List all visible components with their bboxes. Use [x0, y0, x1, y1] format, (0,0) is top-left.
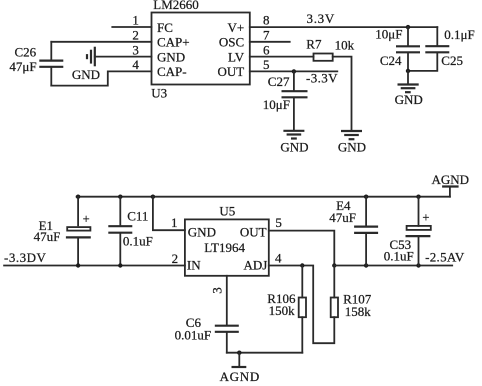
resistor R107: [331, 266, 372, 320]
wire U5 pin 1: [153, 197, 185, 231]
svg-text:V+: V+: [227, 20, 244, 35]
svg-text:-3.3V: -3.3V: [306, 70, 338, 85]
svg-text:0.1uF: 0.1uF: [384, 248, 414, 263]
svg-text:+: +: [422, 210, 429, 224]
node E1 top: [76, 195, 80, 199]
wire -2.5AV rail: [334, 249, 465, 265]
svg-text:GND: GND: [188, 225, 216, 240]
node 3.3V at C24: [406, 25, 410, 29]
svg-text:IN: IN: [187, 257, 201, 272]
svg-text:U3: U3: [151, 86, 167, 101]
svg-text:3: 3: [209, 287, 224, 294]
node U5 pin1 branch: [151, 195, 155, 199]
svg-text:GND: GND: [280, 140, 308, 155]
ground below R7: [338, 131, 366, 155]
pin 6 wire to R7: [250, 42, 314, 57]
AGND (bottom): [220, 353, 260, 384]
resistor R7: [306, 36, 354, 60]
svg-text:3.3V: 3.3V: [307, 11, 335, 26]
svg-text:ADJ: ADJ: [243, 257, 267, 272]
svg-text:R7: R7: [306, 36, 322, 51]
svg-text:C25: C25: [441, 53, 463, 68]
svg-text:AGND: AGND: [220, 369, 260, 384]
capacitor E1 (electrolytic): [34, 197, 91, 266]
capacitor C53 (electrolytic): [384, 197, 431, 266]
node C24/C25 junction: [406, 69, 410, 73]
node C53 top: [416, 195, 420, 199]
svg-text:5: 5: [275, 215, 282, 230]
svg-text:4: 4: [132, 57, 139, 72]
svg-text:C26: C26: [15, 44, 37, 59]
node C11 top: [118, 195, 122, 199]
pin 5 wire -3.3V net: [250, 57, 338, 85]
svg-text:10μF: 10μF: [263, 97, 290, 112]
svg-text:LM2660: LM2660: [153, 0, 199, 12]
svg-text:C24: C24: [380, 53, 402, 68]
svg-text:2: 2: [172, 251, 179, 266]
node E4 top: [364, 195, 368, 199]
svg-text:-2.5AV: -2.5AV: [425, 249, 465, 264]
svg-text:GND: GND: [72, 67, 100, 82]
wire ADJ pin 4 to R107 bottom: [269, 266, 335, 344]
svg-text:150k: 150k: [269, 303, 296, 318]
wire R7 to ground: [333, 57, 352, 130]
svg-text:+: +: [83, 212, 90, 226]
capacitor C6: [175, 315, 239, 353]
wire U5 pin 3: [209, 276, 227, 325]
svg-text:0.1μF: 0.1μF: [444, 27, 474, 42]
svg-text:OSC: OSC: [219, 35, 244, 50]
svg-text:1: 1: [171, 215, 178, 230]
svg-text:6: 6: [263, 42, 270, 57]
pin 1 stub FC: [112, 13, 151, 28]
svg-text:3: 3: [132, 42, 139, 57]
ground below C24: [395, 85, 423, 108]
capacitor C25: [408, 27, 475, 71]
svg-text:OUT: OUT: [240, 225, 267, 240]
svg-text:U5: U5: [219, 204, 235, 219]
node OUT/R107 junction: [332, 263, 336, 267]
capacitor C11: [108, 197, 153, 266]
capacitor C24: [375, 26, 420, 71]
op-amp U5 LT1964 box: [185, 204, 269, 276]
svg-text:10k: 10k: [335, 37, 355, 52]
svg-text:7: 7: [263, 28, 270, 43]
node R106 top: [300, 263, 304, 267]
svg-text:LV: LV: [228, 49, 245, 64]
node AGND branch: [237, 351, 241, 355]
svg-text:47μF: 47μF: [9, 59, 36, 74]
wire OUT pin 5: [269, 231, 335, 266]
svg-text:C11: C11: [127, 208, 148, 223]
svg-text:GND: GND: [395, 92, 423, 107]
node E4 bottom: [364, 263, 368, 267]
pin 7 stub OSC: [250, 28, 290, 43]
svg-text:0.01uF: 0.01uF: [175, 328, 211, 343]
op-amp U3 LM2660 box: [151, 0, 250, 101]
svg-text:0.1uF: 0.1uF: [123, 233, 153, 248]
svg-text:C27: C27: [268, 74, 290, 89]
svg-text:OUT: OUT: [217, 64, 244, 79]
ground below C27: [280, 131, 308, 155]
node C11 bottom: [118, 263, 122, 267]
svg-text:10μF: 10μF: [375, 26, 402, 41]
svg-text:47uF: 47uF: [329, 210, 356, 225]
svg-text:FC: FC: [157, 20, 173, 35]
capacitor E4: [329, 197, 378, 266]
svg-text:47uF: 47uF: [34, 229, 61, 244]
svg-text:GND: GND: [157, 49, 185, 64]
pin 3 wire to ground: [95, 42, 152, 57]
svg-text:5: 5: [263, 57, 270, 72]
wire to ground below C24: [407, 71, 409, 84]
capacitor C27: [263, 71, 308, 129]
svg-text:8: 8: [263, 13, 270, 28]
svg-text:CAP+: CAP+: [157, 35, 190, 50]
node E1 bottom: [76, 263, 80, 267]
svg-text:158k: 158k: [345, 304, 372, 319]
svg-text:4: 4: [275, 251, 282, 266]
wire -3.3DV rail: [4, 250, 185, 266]
pin 4 wire to C26 bottom: [51, 57, 151, 86]
pin 2 wire to C26: [51, 28, 151, 43]
svg-text:1: 1: [132, 13, 139, 28]
ground (sideways) at pin 3: [72, 47, 100, 82]
svg-text:GND: GND: [338, 140, 366, 155]
node C53 bottom: [416, 263, 420, 267]
capacitor C26: [9, 42, 63, 86]
node at C27: [292, 69, 296, 73]
svg-text:2: 2: [132, 28, 139, 43]
wire 3.3V net from pin 8: [250, 11, 437, 28]
wire top rail of lower circuit: [77, 196, 450, 198]
AGND (top right): [432, 172, 470, 197]
svg-text:CAP-: CAP-: [157, 64, 187, 79]
svg-text:-3.3DV: -3.3DV: [4, 250, 46, 265]
wire C6 to R106 bottom: [227, 352, 302, 354]
svg-text:LT1964: LT1964: [204, 240, 245, 255]
resistor R106: [267, 266, 306, 353]
svg-text:AGND: AGND: [432, 172, 470, 187]
